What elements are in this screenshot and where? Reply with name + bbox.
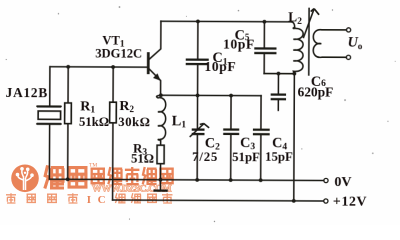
svg-text:WWW.DZSC.COM: WWW.DZSC.COM: [92, 184, 171, 195]
svg-text:620pF: 620pF: [298, 84, 334, 99]
svg-text:51Ω: 51Ω: [131, 152, 154, 166]
svg-text:30kΩ: 30kΩ: [118, 115, 150, 129]
svg-text:I: I: [87, 194, 91, 206]
svg-text:+12V: +12V: [333, 195, 367, 210]
svg-text:JA12B: JA12B: [6, 85, 49, 100]
svg-text:3DG12C: 3DG12C: [95, 46, 142, 60]
svg-text:10pF: 10pF: [204, 59, 236, 74]
svg-text:7/25: 7/25: [192, 150, 218, 164]
svg-text:10pF: 10pF: [223, 36, 255, 51]
svg-text:C: C: [98, 194, 106, 206]
svg-text:0V: 0V: [334, 175, 351, 190]
svg-text:15pF: 15pF: [265, 150, 293, 164]
svg-text:51kΩ: 51kΩ: [79, 115, 109, 129]
svg-text:51pF: 51pF: [232, 150, 260, 164]
